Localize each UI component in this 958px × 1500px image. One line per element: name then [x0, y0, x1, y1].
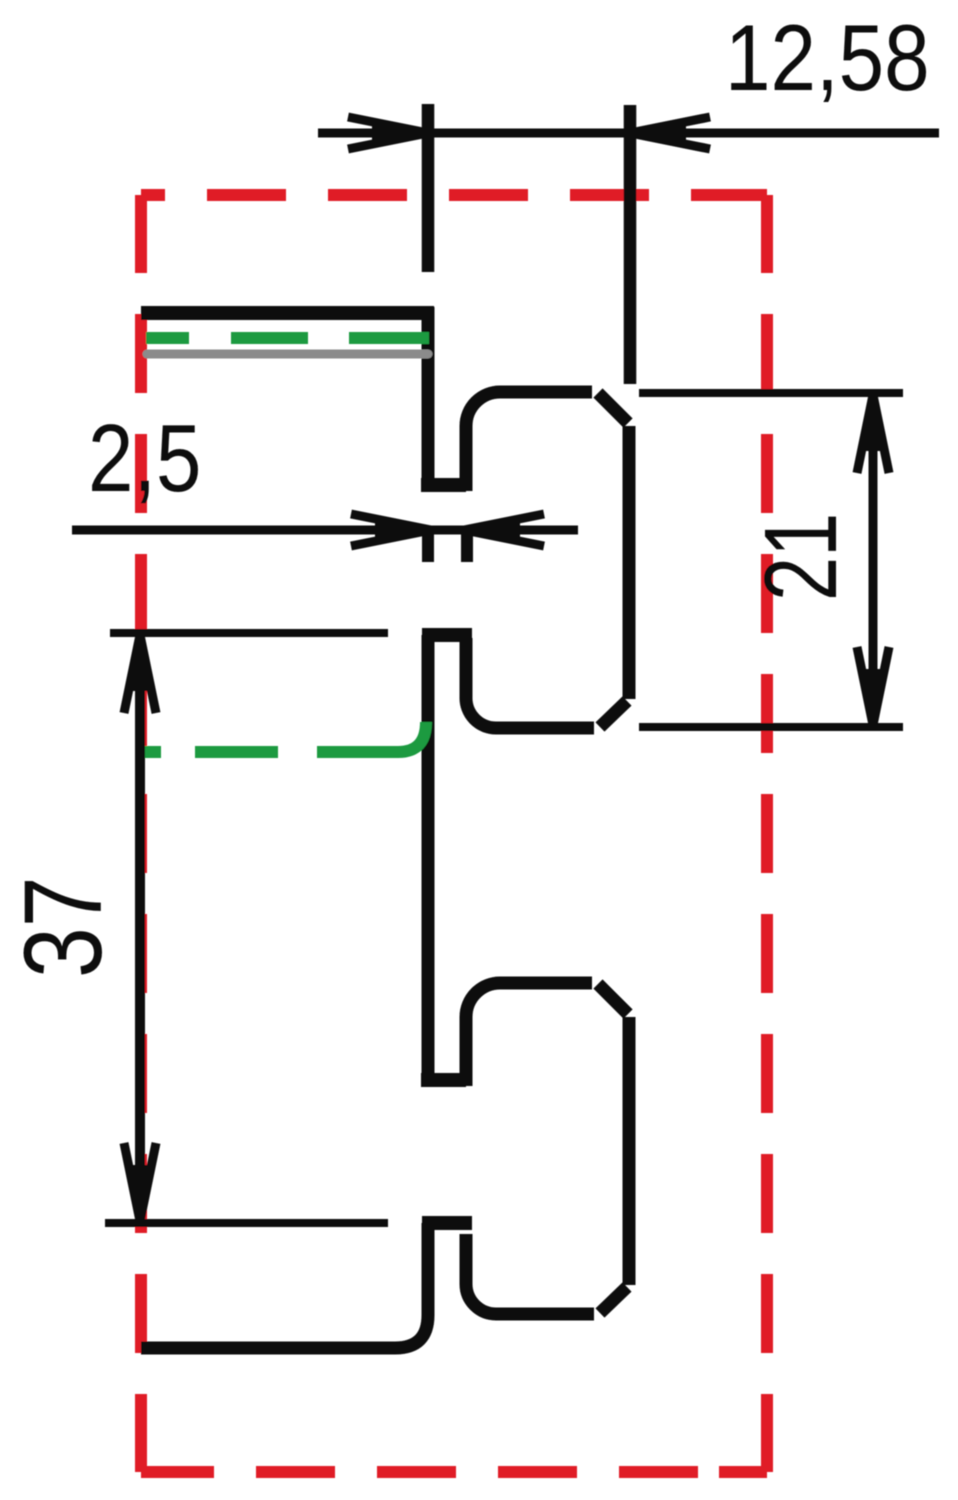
profile chamfer lower-right top — [598, 984, 628, 1014]
dimension 2,5 line — [72, 526, 578, 535]
red dashed outline bottom edge — [141, 1466, 767, 1478]
dimension 12,58 line — [318, 129, 939, 138]
dimension 37 extension line bottom — [105, 1219, 388, 1227]
profile chamfer upper-right top — [598, 393, 628, 423]
dimension 12,58 arrow left-pointing — [630, 117, 710, 149]
profile chamfer lower-right bottom — [600, 1287, 627, 1313]
dimension 21 line — [869, 395, 878, 725]
profile right side lower channel — [623, 1017, 636, 1285]
svg-text:37: 37 — [2, 876, 125, 978]
dimension 2,5 arrow right-pointing — [351, 514, 431, 546]
profile spine upper — [422, 307, 435, 491]
profile spine bottom and bottom flange — [141, 1223, 428, 1348]
profile connector 2 — [422, 1216, 472, 1230]
dimension 37 arrow down — [124, 1143, 156, 1221]
dimension 12,58 extension line right — [624, 105, 637, 384]
profile spine middle — [422, 635, 435, 1086]
dimension 12,58 extension line left — [422, 104, 435, 272]
profile right side upper channel — [623, 426, 636, 699]
profile chamfer upper-right bottom — [600, 701, 627, 727]
dimension 21 arrow down — [857, 647, 889, 725]
dimension 2,5 tick left — [422, 531, 434, 562]
profile bottom arm of lower channel and lip 4 — [466, 1234, 594, 1314]
red dashed outline top edge — [141, 189, 767, 201]
profile foot 1 — [421, 478, 466, 492]
profile lip 3 and top arm of lower channel — [466, 983, 592, 1086]
svg-text:21: 21 — [744, 513, 858, 601]
svg-text:2,5: 2,5 — [88, 404, 201, 512]
dimension 12,58 arrow right-pointing — [348, 117, 428, 149]
svg-text:12,58: 12,58 — [725, 5, 930, 111]
profile lip 1 and top arm of upper channel — [466, 392, 592, 491]
profile foot 2 — [421, 1073, 466, 1087]
profile connector 1 — [422, 628, 472, 642]
dimension 37 arrow up — [124, 635, 156, 713]
dimension 21 extension line top — [639, 389, 903, 397]
profile top flange bar — [141, 306, 434, 320]
green dashed line upper — [146, 332, 429, 344]
dimension 37 line — [135, 637, 145, 1219]
profile bottom arm of upper channel and lip 2 — [466, 638, 594, 728]
dimension 21 extension line bottom — [639, 723, 903, 731]
dimension 21 arrow up — [857, 395, 889, 473]
dimension 2,5 tick right — [461, 531, 473, 562]
dimension 37 extension line top — [110, 629, 388, 637]
red dashed outline left edge — [135, 195, 147, 1472]
red dashed outline right edge — [761, 195, 773, 1472]
dimension 2,5 arrow left-pointing — [464, 514, 544, 546]
green dashed line lower with curve — [144, 722, 426, 752]
gray line under top flange — [147, 350, 428, 359]
